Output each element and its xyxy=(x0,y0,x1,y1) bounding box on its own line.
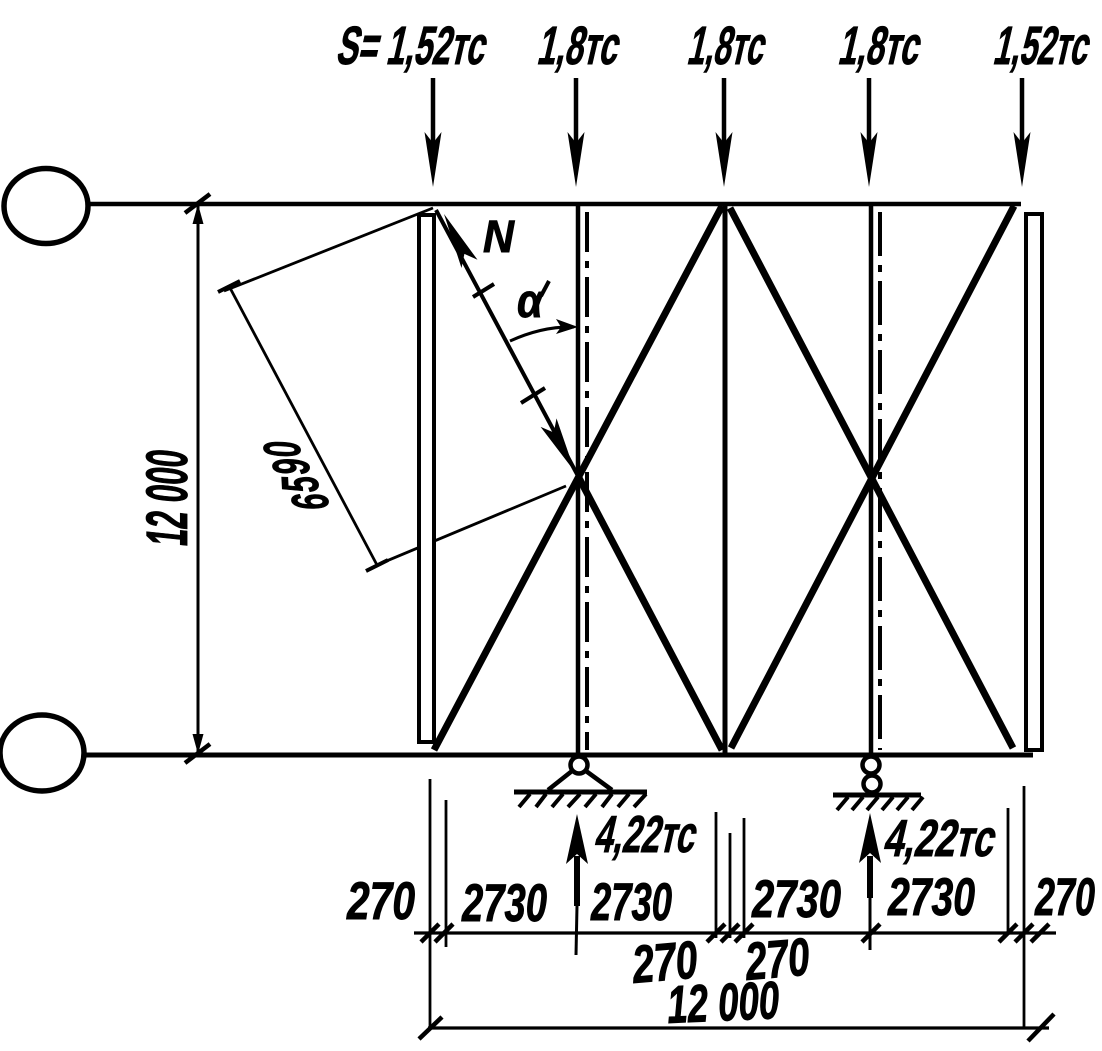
dimension tick at 716 xyxy=(707,924,725,942)
6590 extension line from top corner xyxy=(224,208,433,291)
svg-text:N: N xyxy=(483,211,515,262)
svg-text:1,8тс: 1,8тс xyxy=(533,15,627,76)
diagonal X1 a lower half xyxy=(578,476,722,750)
bottom-left column circle xyxy=(0,715,84,791)
dimension tick at 444 xyxy=(435,924,453,942)
dimension tick at 430 xyxy=(421,924,439,942)
middle vertical member xyxy=(723,205,728,754)
N force arrowhead upper xyxy=(444,214,478,268)
load arrow 5 xyxy=(1014,78,1031,187)
column 1 axis dash-dot xyxy=(585,212,589,750)
extension line right outer xyxy=(1023,786,1026,1029)
diagonal N member upper half xyxy=(436,210,578,476)
dimension tick at 744 xyxy=(735,924,753,942)
svg-text:2730: 2730 xyxy=(751,870,841,929)
diagonal X2 b xyxy=(731,206,1014,748)
pinned support legs xyxy=(548,771,612,790)
dimension tick at 730 xyxy=(721,924,739,942)
roller support hatching xyxy=(837,797,923,810)
svg-text:α: α xyxy=(517,274,545,327)
roller support roller circle xyxy=(864,776,881,793)
top-left column circle xyxy=(4,169,88,244)
N force tick 1 xyxy=(473,284,494,297)
extension line mid a xyxy=(715,812,718,938)
svg-text:270: 270 xyxy=(346,872,415,931)
svg-text:2730: 2730 xyxy=(461,874,547,933)
dimension tick at 1008 xyxy=(999,924,1017,942)
svg-text:1,8тс: 1,8тс xyxy=(683,15,773,76)
svg-text:4,22тс: 4,22тс xyxy=(879,810,1002,868)
load arrow 3 xyxy=(716,78,733,187)
angle arc xyxy=(510,327,574,341)
extension line left 270 xyxy=(445,800,448,947)
dimension tick at 1024 xyxy=(1015,924,1033,942)
reaction arrow R1 xyxy=(566,814,588,955)
extension line left outer xyxy=(429,779,432,1029)
N force tick 2 xyxy=(521,388,545,403)
main dimension line xyxy=(414,931,1056,934)
svg-text:1,52тс: 1,52тс xyxy=(989,15,1097,76)
svg-text:2730: 2730 xyxy=(887,868,975,927)
roller support ground line xyxy=(833,793,921,798)
svg-text:4,22тс: 4,22тс xyxy=(590,806,703,864)
diagonal X2 a xyxy=(730,208,1013,748)
vertical dimension line 12000 xyxy=(185,194,210,763)
pinned support ground line xyxy=(514,790,647,795)
label alpha ascender stroke xyxy=(541,281,549,296)
svg-text:12 000: 12 000 xyxy=(135,450,200,546)
load arrow 2 xyxy=(568,78,585,187)
N force arrowhead lower xyxy=(541,418,575,472)
reaction arrow R2 xyxy=(859,813,881,950)
extension line mid b xyxy=(729,833,732,938)
left chord bar xyxy=(419,215,434,742)
column 1 member xyxy=(576,206,581,757)
load arrow 1 xyxy=(425,78,442,187)
extension line right 2730 xyxy=(1007,808,1010,935)
roller support pin circle xyxy=(863,757,880,774)
pinned support pin circle xyxy=(571,757,588,774)
angle arc arrowhead xyxy=(556,319,578,334)
svg-text:1,8тс: 1,8тс xyxy=(834,15,928,76)
right chord bar xyxy=(1026,214,1042,750)
column 2 axis dash-dot xyxy=(878,212,882,750)
top chord xyxy=(88,202,1021,207)
svg-text:12 000: 12 000 xyxy=(666,971,780,1035)
extension line mid c xyxy=(743,818,746,938)
load arrow 4 xyxy=(861,78,878,187)
bottom overall dimension line 12000 xyxy=(419,1014,1054,1041)
6590 dimension line xyxy=(218,281,388,571)
6590 leader to crossing xyxy=(377,486,566,565)
svg-text:S= 1,52тс: S= 1,52тс xyxy=(332,15,494,76)
pinned support hatching xyxy=(519,794,646,807)
bottom chord xyxy=(84,753,1033,758)
column 2 member xyxy=(869,206,874,757)
svg-text:270: 270 xyxy=(1034,868,1095,927)
svg-text:2730: 2730 xyxy=(590,873,672,932)
dimension tick at 871 xyxy=(862,924,880,942)
diagonal X1 b xyxy=(434,206,722,750)
dimension tick at 1040 xyxy=(1031,924,1049,942)
6590 dimension text xyxy=(253,440,340,512)
